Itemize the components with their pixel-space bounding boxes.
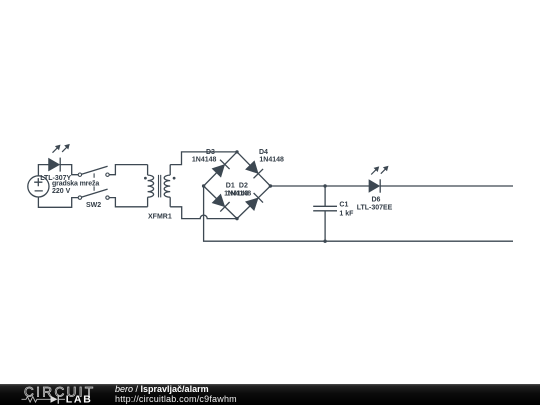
junction node bridge top [235,150,238,153]
wire switch bottom to transformer [109,198,147,207]
LED D6 [369,166,388,193]
CircuitLab logo [0,384,110,405]
bridge edge top-right [237,152,270,186]
bridge edge left-bottom [204,186,237,219]
svg-text:XFMR1: XFMR1 [148,213,172,220]
svg-text:D3: D3 [206,149,215,156]
svg-text:D4: D4 [259,149,268,156]
junction node C1 top [323,184,326,187]
svg-text:220 V: 220 V [52,188,71,195]
footer title text [115,385,209,394]
wire top of source loop [38,165,49,176]
svg-text:D1: D1 [226,182,235,189]
capacitor C1 [313,186,337,241]
svg-text:1N4148: 1N4148 [227,191,252,198]
wire transformer secondary bottom to bridge bottom node with hop [170,207,237,219]
junction node C1 bottom [323,240,326,243]
svg-text:LTL-307EE: LTL-307EE [357,205,393,212]
switch SW2 [78,166,109,199]
bridge edge bottom-right [237,186,270,219]
svg-text:gradska mreža: gradska mreža [52,181,99,188]
wire LED to switch top [60,165,78,175]
junction node bridge bottom [235,217,238,220]
footer bar [0,384,540,405]
svg-text:D2: D2 [239,182,248,189]
wire transformer secondary top to bridge top node [170,152,237,165]
wire bottom of source loop [38,197,78,207]
diode D1 bottom-left edge [212,194,230,212]
wire bridge left node down to bottom rail [204,186,513,241]
diode D4 top-right edge [245,161,263,179]
wire LED D6 to right end [380,185,513,187]
voltage source V1 circle [28,176,49,197]
wire bridge right node to LED D6 [270,185,369,187]
svg-text:1 kF: 1 kF [339,210,354,217]
transformer XFMR1 [144,165,176,207]
svg-text:C1: C1 [339,202,348,209]
junction node bridge right [269,184,272,187]
wire switch top to transformer [109,165,147,175]
diode D3 top-left edge [212,160,230,178]
svg-text:1N4148: 1N4148 [259,156,284,163]
LED LTL-307Y [49,144,70,172]
diode D2 bottom-right edge [245,193,263,211]
svg-text:LAB: LAB [66,394,93,405]
junction node bridge left [202,184,205,187]
svg-text:1N4148: 1N4148 [192,156,217,163]
footer url text [115,395,237,404]
svg-text:SW2: SW2 [86,202,101,209]
bridge edge left-top [204,152,237,186]
svg-text:D6: D6 [372,197,381,204]
